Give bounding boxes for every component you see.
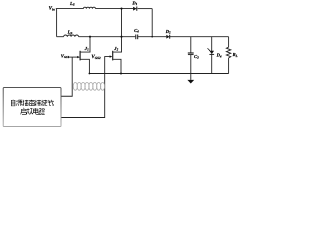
wire top rail right (D1 cathode to corner) — [138, 8, 153, 10]
transistor J1 channel bar — [79, 51, 81, 61]
junction dots — [89, 8, 154, 75]
diode D2 — [166, 35, 169, 39]
inductor Ls — [83, 7, 95, 8]
svg-text:VGS1: VGS1 — [61, 54, 70, 60]
wire second rail (Lp to C4 left plate) — [79, 36, 136, 38]
svg-text:LP: LP — [67, 30, 73, 36]
wire second rail left (to Lp) — [57, 36, 64, 38]
wire J1 drain riser — [81, 37, 91, 52]
box text line2: 启动电路 (drawn strokes) — [21, 108, 45, 115]
diode D1 (triangle and cathode bar) — [133, 7, 137, 11]
wire J1 gate lead — [68, 56, 77, 58]
svg-text:D1: D1 — [131, 1, 137, 7]
wire second rail (D2 cathode to right corner) — [170, 36, 229, 38]
wire D1 cathode drop to second rail — [151, 9, 153, 37]
wire top rail left (Vin to D1 anode) — [56, 8, 84, 10]
transistor J2 gate arrow — [110, 55, 113, 57]
svg-text:RL: RL — [233, 52, 238, 58]
capacitor C4 plates — [136, 35, 138, 40]
transistor J2 channel bar — [112, 51, 114, 61]
inductor Lp — [64, 35, 79, 37]
svg-text:D2: D2 — [165, 29, 171, 35]
svg-text:LS: LS — [69, 1, 75, 7]
svg-text:D4: D4 — [216, 53, 222, 59]
wire D4 branch top — [211, 37, 213, 51]
feedback winding coil — [73, 82, 104, 90]
wire J2 gate lead and feedback drop — [61, 57, 110, 118]
wire J2 source lead — [113, 59, 121, 73]
transistor J1 gate arrow — [77, 56, 80, 58]
svg-text:C4: C4 — [134, 28, 139, 34]
wire J1 source lead — [81, 59, 90, 73]
wire J1 gate vertical to startup box — [61, 57, 72, 96]
svg-text:VGS2: VGS2 — [91, 54, 101, 60]
diode D4 (zener/photo style with arrow) — [208, 48, 215, 54]
capacitor C3 plates — [188, 53, 194, 55]
svg-text:C3: C3 — [194, 54, 199, 60]
wire RL branch bottom — [228, 58, 230, 74]
svg-text:J1: J1 — [84, 46, 89, 52]
wire C3 branch top — [190, 37, 192, 53]
wire node A vertical: top rail to J2 drain — [113, 9, 121, 53]
wire bottom source rail — [89, 73, 228, 75]
ground symbol — [187, 80, 194, 84]
svg-text:J2: J2 — [113, 46, 118, 52]
wire D4 branch bottom — [211, 55, 213, 74]
wire Vin vertical drop — [56, 9, 58, 37]
wire C3 branch bottom to ground stub — [190, 55, 192, 80]
box text line1: 自激振荡推挽式 (drawn strokes) — [11, 100, 53, 106]
startup circuit box — [3, 88, 61, 127]
svg-text:Vin: Vin — [49, 6, 55, 12]
wire second rail (C4 right plate to D2 anode) — [138, 36, 166, 38]
wire RL branch top — [228, 37, 230, 48]
wire top rail mid (Ls to D1) — [96, 8, 134, 10]
resistor RL zigzag — [226, 47, 230, 58]
